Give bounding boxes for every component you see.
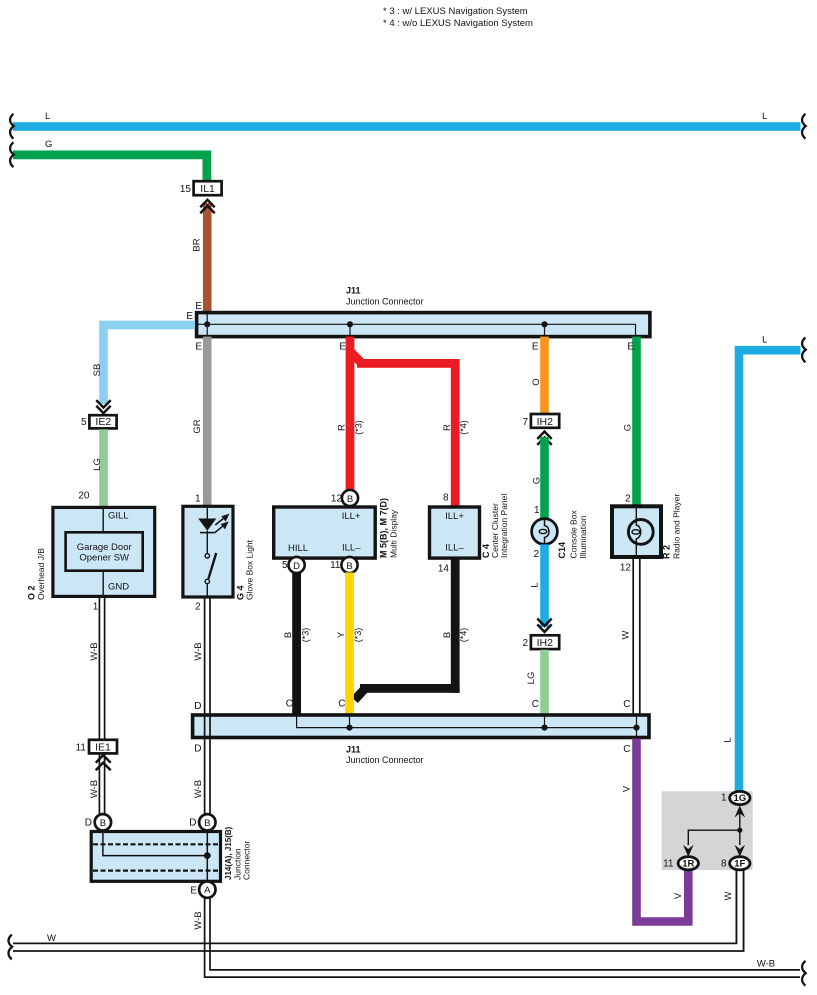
break symbol right of wire W-B — [802, 961, 806, 986]
connector 1F — [730, 857, 750, 870]
svg-text:E: E — [186, 311, 193, 322]
connector 1R — [678, 857, 698, 870]
svg-text:R: R — [337, 424, 348, 431]
svg-text:B: B — [347, 494, 353, 505]
svg-text:11: 11 — [76, 743, 87, 754]
pin B circle (J14 right) — [199, 814, 215, 830]
wire L top horizontal — [13, 122, 801, 131]
dashed lines inside J14 — [93, 843, 219, 845]
svg-text:W-B: W-B — [89, 642, 100, 660]
garage door opener SW box — [66, 532, 143, 570]
wire inside O2 top — [102, 507, 104, 531]
svg-text:GR: GR — [192, 419, 203, 433]
wire L (right side down to 1G) — [739, 350, 801, 791]
wire W-B (J14 to bottom) — [205, 898, 800, 978]
glove box light G4 — [183, 506, 233, 597]
wire BR — [203, 203, 212, 311]
wire inside O2 bottom — [102, 572, 104, 597]
svg-text:W-B: W-B — [757, 959, 775, 970]
svg-text:1G: 1G — [733, 793, 746, 804]
svg-text:ILL+: ILL+ — [342, 511, 361, 522]
wire G horizontal — [13, 155, 207, 181]
wire W (R2 to J11) — [632, 557, 634, 714]
wire G (J11 to R2) — [632, 337, 641, 506]
svg-text:11: 11 — [330, 560, 341, 571]
svg-text:2: 2 — [522, 638, 528, 649]
svg-text:W-B: W-B — [193, 642, 204, 660]
break symbol right of wire L — [802, 114, 806, 139]
wire V (J11 to 1R) — [637, 739, 689, 922]
svg-text:BR: BR — [192, 238, 203, 251]
svg-text:IE2: IE2 — [95, 416, 111, 428]
svg-text:5: 5 — [282, 560, 288, 571]
wire G (IH2 to C14) — [540, 437, 549, 519]
svg-text:Junction Connector: Junction Connector — [346, 297, 424, 307]
svg-text:C14: C14 — [557, 542, 567, 559]
svg-text:Multi Display: Multi Display — [389, 509, 399, 558]
wire B (*4) — [451, 558, 460, 693]
svg-text:2: 2 — [533, 549, 539, 560]
svg-text:(*3): (*3) — [301, 628, 311, 643]
junction connector J14(A), J15(B) — [91, 832, 220, 882]
junction dot (W/V) — [633, 725, 639, 731]
svg-text:C: C — [286, 699, 293, 710]
svg-text:E: E — [339, 342, 346, 353]
pin A circle (J14 bottom) — [199, 881, 215, 897]
svg-text:B: B — [100, 818, 106, 829]
svg-text:D: D — [189, 818, 196, 829]
svg-text:Garage Door: Garage Door — [77, 542, 132, 553]
break symbol right of wire L lower — [802, 338, 806, 363]
wire R branch (*4) — [350, 351, 363, 364]
svg-text:(*3): (*3) — [353, 628, 363, 643]
svg-text:Glove Box Light: Glove Box Light — [245, 539, 255, 600]
junction dot (BR/GR) — [204, 321, 210, 327]
svg-text:G: G — [45, 139, 52, 150]
wire B (*3) — [292, 572, 301, 714]
svg-text:R 2: R 2 — [662, 545, 672, 559]
wire LG (IH2 to J11) — [540, 650, 549, 715]
wire L (C14 to IH2) — [540, 544, 549, 627]
console box illumination C14 lamp — [532, 519, 558, 545]
svg-text:V: V — [622, 785, 633, 792]
svg-text:O 2: O 2 — [27, 585, 37, 600]
svg-text:C: C — [338, 699, 345, 710]
junction connector J11 (top) — [197, 313, 650, 337]
svg-text:IL1: IL1 — [200, 183, 215, 195]
junction dot (R) — [347, 321, 353, 327]
svg-text:11: 11 — [663, 859, 674, 870]
wire LG (IE2 to O2) — [99, 429, 108, 506]
pin D circle (M display pin 5) — [289, 557, 305, 573]
svg-text:W-B: W-B — [193, 780, 204, 798]
svg-text:E: E — [627, 342, 634, 353]
pin B circle (J14 left) — [95, 814, 111, 830]
wire W (1F down) — [735, 870, 737, 944]
svg-text:ILL+: ILL+ — [445, 511, 464, 522]
break symbol left of wire L — [10, 114, 14, 139]
svg-text:W-B: W-B — [193, 911, 204, 929]
svg-text:J11: J11 — [346, 745, 361, 755]
svg-text:8: 8 — [443, 493, 449, 504]
wire SB — [104, 325, 196, 404]
svg-text:5: 5 — [81, 417, 87, 428]
svg-text:14: 14 — [438, 564, 450, 575]
svg-text:W-B: W-B — [89, 780, 100, 798]
wire inside J11 top — [198, 324, 636, 336]
svg-text:W: W — [47, 933, 56, 944]
svg-text:D: D — [194, 701, 201, 712]
svg-text:E: E — [532, 342, 539, 353]
svg-text:B: B — [283, 632, 294, 638]
svg-text:E: E — [190, 886, 197, 897]
svg-text:L: L — [530, 582, 541, 587]
svg-text:HILL: HILL — [288, 543, 308, 554]
svg-text:1: 1 — [93, 602, 99, 613]
svg-text:D: D — [194, 744, 201, 755]
svg-text:L: L — [762, 335, 767, 346]
svg-text:(*3): (*3) — [354, 420, 364, 435]
svg-text:20: 20 — [78, 491, 90, 502]
svg-text:Integration Panel: Integration Panel — [499, 494, 509, 558]
wire W-B crossing J11 bottom — [204, 715, 206, 738]
wire O — [540, 337, 549, 415]
connector 1G — [730, 791, 750, 804]
overhead J/B O2 — [53, 507, 155, 596]
junction dot inside fuse box — [737, 828, 742, 833]
svg-text:Illumination: Illumination — [578, 515, 588, 558]
svg-text:D: D — [85, 818, 92, 829]
svg-text:B: B — [204, 818, 210, 829]
multi display M5(B) M7(D) — [274, 507, 376, 558]
svg-text:B: B — [442, 632, 453, 638]
svg-text:M 5(B), M 7(D): M 5(B), M 7(D) — [379, 498, 389, 558]
svg-text:C: C — [623, 699, 630, 710]
svg-text:LG: LG — [526, 672, 537, 685]
svg-text:O: O — [531, 378, 542, 385]
svg-text:V: V — [673, 892, 684, 899]
svg-text:LG: LG — [92, 458, 103, 471]
junction dot inside J14 — [204, 852, 211, 859]
arrow up below 1G — [735, 806, 746, 818]
svg-text:12: 12 — [620, 563, 632, 574]
svg-text:15: 15 — [180, 184, 192, 195]
svg-text:L: L — [45, 111, 50, 122]
svg-text:L: L — [762, 111, 767, 122]
svg-text:* 4 : w/o LEXUS Navigation Sys: * 4 : w/o LEXUS Navigation System — [383, 18, 533, 29]
svg-text:C: C — [623, 744, 630, 755]
svg-text:R: R — [442, 424, 453, 431]
svg-text:1F: 1F — [734, 859, 745, 870]
chevron pair below IE1 — [96, 755, 111, 770]
svg-text:IH2: IH2 — [537, 416, 554, 428]
wire W-B (G4 to J14) — [204, 597, 206, 815]
svg-text:(*4): (*4) — [459, 420, 469, 435]
fuse block shaded box — [662, 791, 753, 870]
svg-text:1: 1 — [721, 793, 727, 804]
svg-text:1R: 1R — [682, 859, 694, 870]
chevron pair above IE2 — [96, 400, 110, 413]
svg-text:GILL: GILL — [108, 511, 129, 522]
svg-text:E: E — [195, 342, 202, 353]
svg-text:2: 2 — [195, 602, 201, 613]
svg-text:Connector: Connector — [242, 841, 252, 880]
wire W-B (IE1 to J14) — [98, 754, 100, 815]
connector IE1 pin 11 — [89, 740, 117, 754]
svg-text:Console Box: Console Box — [569, 510, 579, 559]
pin B circle (M display pin 11) — [341, 557, 357, 573]
wire inside J14 — [103, 831, 207, 856]
connector IL1 pin 15 — [194, 181, 222, 195]
svg-text:12: 12 — [331, 494, 343, 505]
connector IE2 pin 5 — [89, 415, 116, 428]
wire Y (*3) — [345, 572, 354, 714]
junction dot (O) — [541, 321, 547, 327]
svg-text:W: W — [621, 630, 632, 639]
connector IH2 pin 7 — [531, 414, 559, 428]
svg-text:IH2: IH2 — [537, 637, 554, 649]
svg-text:ILL–: ILL– — [445, 543, 464, 554]
connector IH2 pin 2 — [531, 635, 559, 649]
junction dot (LG) — [541, 725, 547, 731]
svg-text:ILL–: ILL– — [342, 543, 361, 554]
radio and player R2 — [612, 506, 661, 557]
svg-text:B: B — [346, 561, 352, 572]
svg-text:A: A — [204, 885, 211, 896]
break symbol left of wire G — [10, 142, 14, 167]
svg-text:IE1: IE1 — [95, 742, 111, 754]
svg-text:L: L — [723, 737, 734, 742]
pin B circle (M display pin 12) — [342, 490, 358, 506]
wire W-B (O2 to IE1) — [98, 596, 100, 740]
svg-text:W: W — [723, 891, 734, 900]
wire to 1R — [688, 830, 740, 845]
svg-text:G: G — [623, 424, 634, 431]
svg-text:Opener SW: Opener SW — [79, 552, 129, 563]
svg-text:1: 1 — [195, 494, 201, 505]
svg-text:GND: GND — [108, 582, 129, 593]
lamp inside R2 — [635, 508, 637, 521]
svg-text:7: 7 — [522, 417, 528, 428]
svg-text:Junction Connector: Junction Connector — [346, 755, 424, 765]
svg-text:Radio and Player: Radio and Player — [672, 494, 682, 559]
svg-text:C: C — [532, 699, 539, 710]
svg-text:2: 2 — [625, 494, 631, 505]
svg-text:Y: Y — [336, 631, 347, 638]
svg-text:8: 8 — [721, 859, 727, 870]
wire GR — [203, 337, 212, 507]
wire inside J11 bottom — [297, 715, 637, 728]
chevron pair below IH2 — [537, 432, 551, 445]
light emission arrows — [215, 519, 223, 526]
arrow down above 1F — [735, 845, 746, 857]
svg-text:(*4): (*4) — [459, 628, 469, 643]
break symbol left of wire W — [8, 935, 12, 960]
svg-text:G: G — [532, 477, 543, 484]
junction dot (Y) — [346, 725, 352, 731]
svg-text:J11: J11 — [346, 286, 361, 296]
arrow down above 1R — [683, 845, 694, 857]
svg-text:* 3 : w/ LEXUS Navigation Syst: * 3 : w/ LEXUS Navigation System — [383, 6, 528, 17]
wire R (main, *3) — [346, 337, 355, 491]
svg-text:Overhead J/B: Overhead J/B — [36, 548, 46, 600]
wire W bottom horizontal — [13, 870, 736, 944]
junction connector J11 (bottom) — [193, 715, 649, 738]
LED and switch inside G4 — [206, 506, 208, 519]
svg-text:D: D — [293, 561, 300, 572]
svg-text:SB: SB — [92, 364, 103, 377]
center cluster integration panel C4 — [430, 507, 480, 558]
chevron pair above IH2 bottom — [537, 619, 551, 632]
wire to 1F — [739, 830, 741, 845]
svg-text:1: 1 — [534, 505, 540, 516]
chevron pair below IL1 — [200, 200, 214, 213]
svg-text:E: E — [195, 301, 202, 312]
